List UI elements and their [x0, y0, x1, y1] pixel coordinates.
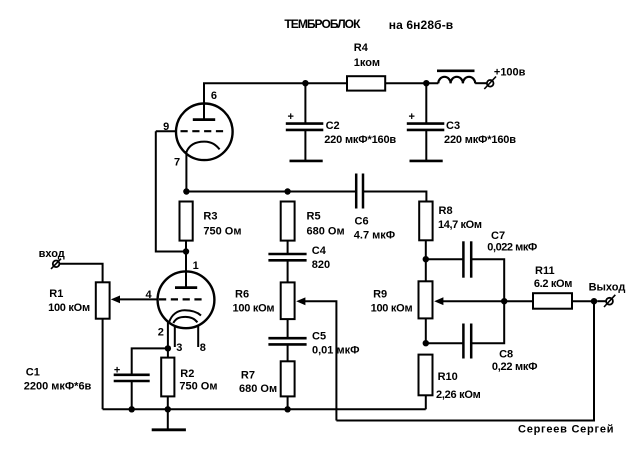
svg-text:R1: R1 [49, 288, 63, 300]
potentiometer R1 [96, 282, 110, 318]
terminal Выход [597, 300, 606, 302]
wire mid bus [186, 191, 355, 193]
resistor R7 [281, 361, 295, 396]
U2 anode lead pin 1 [185, 252, 187, 288]
potentiometer R9 [419, 281, 433, 318]
wire R6 wiper to bus2 [305, 301, 337, 420]
capacitor C3 [425, 83, 427, 122]
svg-text:0,22 мкФ: 0,22 мкФ [492, 361, 538, 373]
svg-text:Выход: Выход [589, 281, 626, 293]
svg-text:4.7 мкФ: 4.7 мкФ [354, 229, 395, 241]
resistor R8 [419, 202, 432, 241]
U2 plate [175, 286, 197, 289]
svg-text:C6: C6 [355, 215, 369, 227]
R6 bottom lead [287, 319, 289, 338]
node dot wiper net [501, 298, 507, 304]
R1 bottom lead [102, 319, 104, 410]
node dot bus-R5 [284, 188, 290, 194]
potentiometer R6 [281, 282, 295, 319]
svg-text:2,26 кОм: 2,26 кОм [436, 389, 481, 401]
node dot bus-R3 [183, 188, 189, 194]
resistor R3 [180, 202, 193, 241]
ground bar C3 [410, 160, 443, 163]
svg-text:4: 4 [146, 289, 153, 301]
svg-text:Сергеев Сергей: Сергеев Сергей [518, 424, 614, 436]
svg-text:+100в: +100в [494, 66, 526, 78]
svg-text:C5: C5 [312, 331, 326, 343]
R1 wiper arrow [111, 296, 120, 304]
svg-text:C4: C4 [312, 245, 327, 257]
capacitor C6 [355, 174, 358, 209]
U1 cathode lead pin7 [185, 151, 187, 192]
svg-text:+: + [409, 111, 415, 123]
svg-text:820: 820 [312, 259, 330, 271]
capacitor C2 [304, 83, 306, 122]
resistor R5 [281, 202, 295, 241]
svg-text:6.2 кОм: 6.2 кОм [534, 278, 573, 290]
resistor R4 [347, 76, 385, 90]
svg-text:+: + [288, 111, 294, 123]
wire coil to terminal [475, 82, 486, 84]
R9 wiper arrow [434, 297, 443, 305]
U1 grid lead pin 9 [156, 130, 177, 132]
svg-text:R3: R3 [203, 210, 217, 222]
capacitor C1 [132, 348, 168, 374]
svg-text:8: 8 [200, 342, 206, 354]
U2 grid [159, 298, 203, 300]
svg-text:750 Ом: 750 Ом [203, 226, 241, 238]
U2 pin3 leg [174, 326, 176, 347]
node dot C1 bottom [129, 406, 135, 412]
svg-text:100 кОм: 100 кОм [233, 303, 275, 315]
svg-text:ТЕМБРОБЛОК: ТЕМБРОБЛОК [284, 17, 361, 31]
svg-text:R7: R7 [241, 370, 255, 382]
U2 pin2 leg [167, 323, 169, 349]
terminal вход [53, 261, 60, 268]
svg-text:680 Ом: 680 Ом [307, 226, 345, 238]
svg-text:R2: R2 [180, 368, 194, 380]
svg-text:R11: R11 [535, 265, 555, 277]
svg-text:220 мкФ*160в: 220 мкФ*160в [444, 134, 516, 146]
tube U2 triode [158, 271, 215, 328]
capacitor C7 [426, 258, 464, 260]
svg-text:вход: вход [39, 248, 65, 260]
U1 plate [193, 118, 215, 121]
R9 bottom lead [425, 318, 427, 343]
svg-text:C2: C2 [326, 120, 340, 132]
resistor R11 [504, 300, 533, 302]
capacitor C8 [426, 342, 464, 344]
node junction C2 top [302, 80, 308, 86]
wire signal bus2 [336, 301, 594, 420]
svg-text:0,022 мкФ: 0,022 мкФ [487, 242, 537, 254]
node dot R8-C7-R9 [423, 256, 429, 262]
svg-text:1ком: 1ком [354, 57, 380, 69]
svg-text:7: 7 [174, 157, 180, 169]
svg-text:680 Ом: 680 Ом [239, 383, 277, 395]
node dot R2 bottom [165, 406, 171, 412]
svg-text:R6: R6 [235, 289, 249, 301]
U1 cathode [186, 142, 219, 152]
svg-text:14,7 кОм: 14,7 кОм [438, 219, 482, 231]
wire R9 wiper [443, 300, 505, 302]
node dot R9-C8-R10 [423, 340, 429, 346]
svg-text:100 кОм: 100 кОм [371, 303, 413, 315]
svg-text:9: 9 [163, 121, 169, 133]
inductor L1 [437, 70, 475, 73]
svg-text:750 Ом: 750 Ом [179, 380, 217, 392]
U2 pin8 leg [197, 326, 199, 347]
svg-text:R10: R10 [438, 371, 458, 383]
svg-text:+: + [114, 364, 120, 376]
svg-text:R4: R4 [354, 42, 369, 54]
svg-text:на 6н28б-в: на 6н28б-в [389, 18, 454, 32]
svg-text:R9: R9 [373, 289, 387, 301]
terminal +100в [487, 80, 494, 87]
svg-text:C1: C1 [26, 367, 40, 379]
tube U1 triode [176, 104, 233, 161]
wire вход to R1 [60, 264, 103, 283]
wire R5 to C4 [287, 241, 289, 254]
wire top bus left [204, 83, 347, 120]
svg-text:220 мкФ*160в: 220 мкФ*160в [324, 134, 396, 146]
U2 cathode outer arc [169, 310, 201, 322]
resistor R10 [419, 355, 433, 396]
svg-text:0,01 мкФ: 0,01 мкФ [312, 345, 360, 357]
node dot R7 bottom [284, 406, 290, 412]
node dot pin2-C1-R2 [165, 345, 171, 351]
wire pin9 to node A [156, 131, 186, 251]
svg-text:3: 3 [176, 342, 182, 354]
ground bar C2 [290, 160, 323, 163]
U2 heater inner arc [173, 317, 197, 323]
wire C6 to R8 [363, 192, 426, 202]
capacitor C4 [268, 253, 306, 256]
svg-text:2: 2 [158, 327, 164, 339]
svg-text:6: 6 [211, 90, 217, 102]
node dot output [591, 298, 597, 304]
ground [167, 409, 169, 429]
node A dot R3 bottom [183, 248, 189, 254]
capacitor C5 [268, 337, 306, 340]
svg-text:2200 мкФ*6в: 2200 мкФ*6в [24, 380, 92, 392]
node junction C3 top [423, 80, 429, 86]
U2 grid lead pin 4 [119, 298, 158, 300]
svg-text:R8: R8 [439, 205, 453, 217]
wire top bus middle [385, 82, 438, 84]
svg-text:C3: C3 [446, 120, 460, 132]
svg-text:1: 1 [193, 260, 199, 272]
svg-text:100 кОм: 100 кОм [48, 302, 90, 314]
svg-text:C7: C7 [491, 230, 505, 242]
svg-text:R5: R5 [307, 210, 321, 222]
resistor R2 [161, 358, 174, 397]
U1 grid [181, 130, 225, 132]
svg-text:C8: C8 [499, 349, 513, 361]
wire R8 bottom [425, 240, 427, 259]
wire ground bus1 [103, 408, 426, 410]
R6 wiper arrow [296, 297, 305, 305]
